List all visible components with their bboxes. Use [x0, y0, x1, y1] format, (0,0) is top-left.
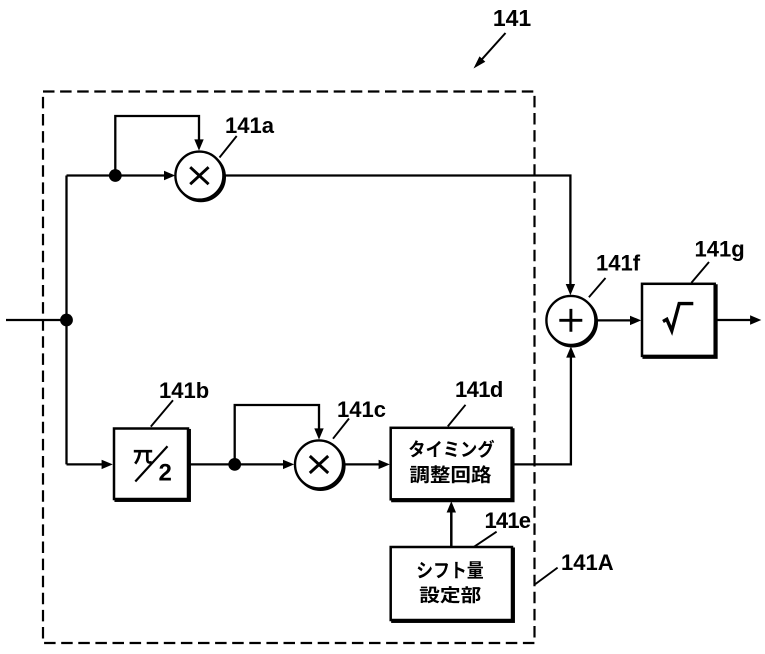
label 141A — [561, 550, 614, 575]
label 141 — [493, 5, 532, 31]
phase shifter 141b (pi/2 box) — [114, 429, 190, 501]
leader arrow to box 141 — [474, 33, 506, 69]
wire multiplier 141a to adder 141f — [223, 176, 575, 296]
wire into phase shifter 141b — [67, 460, 113, 469]
multiplier 141a (circle with X) — [175, 152, 225, 202]
svg-text:141: 141 — [493, 5, 532, 31]
input node junction — [60, 314, 73, 327]
output wire — [715, 315, 762, 324]
svg-text:2: 2 — [159, 460, 172, 487]
leader line 141d — [448, 405, 466, 427]
leader line 141f — [589, 278, 606, 297]
svg-text:141c: 141c — [337, 397, 386, 422]
svg-text:141a: 141a — [225, 113, 275, 138]
svg-text:141g: 141g — [695, 237, 745, 262]
node A (tap for 141a self-loop) — [109, 169, 122, 182]
wire into multiplier 141a — [67, 171, 176, 180]
dashed boundary box of block 141 — [43, 92, 535, 644]
wire 141c to timing circuit 141d — [343, 460, 390, 469]
leader line 141g — [691, 262, 709, 283]
wire adder 141f to sqrt block 141g — [595, 316, 641, 325]
leader line 141b — [151, 400, 173, 426]
label 141g — [695, 237, 745, 262]
feedback loop wire into multiplier 141a — [115, 116, 203, 176]
svg-text:141d: 141d — [455, 377, 503, 402]
adder 141f (circle with plus) — [546, 296, 597, 347]
label 141c — [337, 397, 386, 422]
label 141f — [596, 251, 641, 276]
label 141a — [225, 113, 275, 138]
sqrt block 141g — [642, 284, 716, 358]
multiplier 141c (circle with X) — [295, 440, 345, 490]
node B (tap for 141c self-loop) — [228, 458, 241, 471]
shift amount setting unit 141e — [391, 547, 514, 622]
input wire — [6, 319, 67, 321]
timing adjustment circuit 141d — [391, 428, 514, 501]
riser wire (input split to both branches) — [65, 176, 67, 465]
svg-text:141b: 141b — [159, 378, 209, 403]
leader line 141A — [535, 568, 557, 585]
label 141d — [455, 377, 503, 402]
label 141e — [485, 508, 531, 533]
svg-text:141A: 141A — [561, 550, 614, 575]
wire 141e to 141d — [447, 501, 456, 547]
feedback loop wire into multiplier 141c — [235, 405, 324, 464]
leader line 141e — [474, 532, 496, 547]
leader line 141c — [333, 419, 349, 439]
leader line 141a — [220, 136, 237, 158]
wire 141d to adder 141f — [512, 346, 576, 464]
wire 141b to multiplier 141c — [188, 460, 294, 469]
svg-text:141f: 141f — [596, 251, 641, 276]
label 141b — [159, 378, 209, 403]
svg-text:141e: 141e — [485, 508, 531, 533]
